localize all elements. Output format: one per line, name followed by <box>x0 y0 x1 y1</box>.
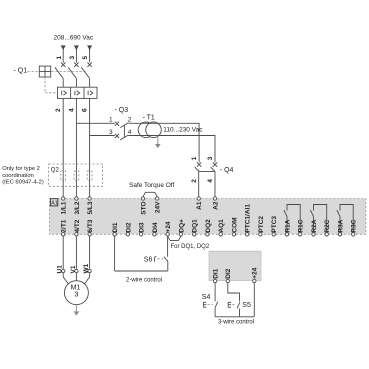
svg-text:6/T3: 6/T3 <box>87 219 94 232</box>
terminal A1 <box>197 197 200 200</box>
breaker pole 1 fixed contact X <box>61 63 65 67</box>
dashed link Q1 box to trip units <box>45 77 57 93</box>
svg-text:3: 3 <box>109 129 113 136</box>
svg-text:3: 3 <box>207 156 214 160</box>
supply arrow L1 <box>61 45 66 50</box>
svg-text:2/T1: 2/T1 <box>61 219 68 232</box>
svg-text:3: 3 <box>69 56 76 60</box>
svg-text:2: 2 <box>55 108 62 112</box>
svg-text:R1A: R1A <box>284 219 291 232</box>
terminal AQ1 <box>219 233 222 236</box>
fuse Q2 pole 2 (dashed) <box>74 171 79 181</box>
wire pole3 blade to trip unit <box>89 78 91 87</box>
terminal 1/L1 <box>62 197 65 200</box>
switch S6 blade <box>164 257 168 262</box>
svg-text:4: 4 <box>207 179 214 183</box>
svg-text:1: 1 <box>109 117 113 124</box>
svg-text:A1: A1 <box>196 201 203 210</box>
3-wire control terminal block (gray) <box>209 251 261 280</box>
terminal DQ2 <box>206 233 209 236</box>
wire +24 down <box>253 283 255 317</box>
svg-text:4/T2: 4/T2 <box>74 219 81 232</box>
optional fuse group Q2 (dashed box) <box>49 164 103 186</box>
terminal 6/T3 <box>88 233 91 236</box>
svg-text:3-wire control: 3-wire control <box>218 319 254 325</box>
wire 4/T2 to V1 <box>75 236 77 269</box>
svg-text:R2C: R2C <box>324 219 331 232</box>
fuse Q2 pole 3 (dashed) <box>87 171 92 181</box>
terminal 5/L3 <box>88 197 91 200</box>
svg-text:- Q4: - Q4 <box>220 167 234 174</box>
relay contact R1 <box>284 205 300 235</box>
block terminal +24 <box>253 279 256 282</box>
svg-text:3/L2: 3/L2 <box>74 201 81 214</box>
contactor Q4 pole 2 blade <box>211 167 215 171</box>
S5 actuator dashes <box>232 304 236 306</box>
svg-text:W1: W1 <box>83 263 90 273</box>
relay contact R3 <box>337 205 353 235</box>
circuit breaker Q1 operating mechanism box <box>39 66 50 77</box>
terminal STO <box>141 197 144 200</box>
breaker pole 2 blade <box>68 67 76 78</box>
svg-text:DI1: DI1 <box>112 222 119 233</box>
svg-text:For DQ1, DQ2: For DQ1, DQ2 <box>171 244 210 250</box>
svg-text:DI1: DI1 <box>213 268 220 279</box>
relay contact R2 <box>310 205 326 235</box>
motor terminal V1 <box>75 269 78 272</box>
Q3 pole 2 fixed contact X <box>115 134 119 138</box>
svg-text:DI2: DI2 <box>225 268 232 279</box>
breaker pole 1 blade <box>55 67 63 78</box>
transformer T1 <box>138 122 161 138</box>
svg-text:5/L3: 5/L3 <box>87 201 94 214</box>
svg-text:1: 1 <box>56 56 63 60</box>
svg-text:110...230 Vac: 110...230 Vac <box>163 126 203 133</box>
svg-text:A2: A2 <box>212 201 219 210</box>
wire L1 to breaker <box>62 49 64 63</box>
svg-text:5: 5 <box>82 56 89 60</box>
supply arrow L2 <box>74 45 79 50</box>
svg-text:4: 4 <box>128 129 132 136</box>
terminal PTC3 <box>272 233 275 236</box>
svg-text:- Q1: - Q1 <box>14 68 28 75</box>
svg-text:3: 3 <box>75 291 79 298</box>
terminal A2 <box>213 197 216 200</box>
terminal R3C <box>352 233 355 236</box>
svg-text:DQ2: DQ2 <box>205 219 212 233</box>
wire Q3 pole2 to Q4 pole2 (through T1) <box>128 136 215 163</box>
svg-text:Q2: Q2 <box>51 167 60 173</box>
svg-text:2: 2 <box>191 179 198 183</box>
svg-text:2-wire control: 2-wire control <box>126 277 162 283</box>
motor M1 <box>64 281 88 305</box>
wire L3 to breaker <box>89 49 91 63</box>
contactor Q4 pole 2 fixed contact X <box>213 162 217 166</box>
terminal R3A <box>338 233 341 236</box>
S4 actuator (push button) <box>203 302 206 307</box>
terminal 3/L2 <box>75 197 78 200</box>
wire Q4 pole2 to A2 <box>214 172 216 197</box>
terminal R2C <box>325 233 328 236</box>
terminal DI4 <box>153 233 156 236</box>
breaker pole 3 blade <box>81 67 89 78</box>
terminal R2A <box>312 233 315 236</box>
push button S4 blade <box>215 302 218 308</box>
svg-text:- Q3: - Q3 <box>115 107 129 114</box>
push button S5 blade <box>237 302 240 308</box>
wire L2 trip unit to starter terminal 3/L2 <box>75 98 77 196</box>
svg-text:1: 1 <box>191 156 198 160</box>
svg-text:- T1: - T1 <box>143 115 155 122</box>
svg-text:DQ1: DQ1 <box>192 219 199 233</box>
T1 secondary earth arrow <box>155 136 161 149</box>
Q3 pole 2 blade <box>120 135 128 140</box>
wire pole2 blade to trip unit <box>75 78 77 87</box>
breaker pole 2 fixed contact X <box>74 63 78 67</box>
terminal DI1 <box>113 233 116 236</box>
svg-text:COM: COM <box>231 217 238 232</box>
Q3 pole 1 fixed contact X <box>115 122 119 126</box>
terminal COM <box>232 233 235 236</box>
2-wire control: wire +24 down to S6 <box>167 236 169 256</box>
note: only for type 2 coordination <box>2 166 44 186</box>
terminal R1C <box>299 233 302 236</box>
wire W1 to motor <box>83 273 89 286</box>
motor shaft arrow <box>74 305 80 316</box>
Q1 overcurrent trip units I> <box>58 87 98 98</box>
svg-text:Safe Torque Off: Safe Torque Off <box>129 182 174 189</box>
svg-text:DI4: DI4 <box>152 222 159 233</box>
terminal DQ+ <box>179 233 182 236</box>
svg-text:R3A: R3A <box>337 219 344 232</box>
terminal 4/T2 <box>75 233 78 236</box>
svg-text:2: 2 <box>128 117 132 124</box>
wire 2/T1 to U1 <box>62 236 64 269</box>
soft starter A1 (main gray terminal band) <box>49 199 365 235</box>
S4 lower wire <box>214 308 216 317</box>
wire Q3 pole1 to Q4 pole1 (through T1) <box>128 123 199 162</box>
motor terminal W1 <box>88 269 91 272</box>
terminal R1A <box>285 233 288 236</box>
supply arrow L3 <box>87 45 92 50</box>
wire tap L2 to Q3 pole 1 <box>76 122 114 124</box>
wire pole1 blade to trip unit <box>62 78 64 87</box>
terminal PTC1/AI1 <box>246 233 249 236</box>
svg-text:4: 4 <box>68 108 75 112</box>
wire U1 to motor <box>63 273 69 286</box>
2-wire control: wire DI1 down <box>114 236 116 271</box>
svg-text:PTC3: PTC3 <box>271 216 278 233</box>
svg-text:S6: S6 <box>144 256 153 263</box>
svg-text:208...690 Vac: 208...690 Vac <box>54 35 94 42</box>
wire DI1 to S4 <box>214 283 216 301</box>
svg-text:R3C: R3C <box>351 219 358 232</box>
wire Q4 pole1 to A1 <box>198 172 200 197</box>
terminal DI2 <box>126 233 129 236</box>
terminal +24 <box>166 233 169 236</box>
jumper +24 to DQ+ <box>168 236 181 240</box>
Q3 pole 1 blade <box>120 123 128 128</box>
svg-text:R2A: R2A <box>311 219 318 232</box>
block terminal DI1 <box>213 279 216 282</box>
svg-text:1/L1: 1/L1 <box>61 201 68 214</box>
breaker pole 3 fixed contact X <box>87 63 91 67</box>
S4 actuator dashes <box>208 304 214 306</box>
svg-text:STO: STO <box>140 202 147 215</box>
2-wire control: bottom wire <box>115 270 168 272</box>
svg-text:Only for type 2: Only for type 2 <box>2 166 40 172</box>
svg-text:M1: M1 <box>71 284 81 291</box>
wire 6/T3 to W1 <box>89 236 91 269</box>
svg-text:S5: S5 <box>242 302 251 309</box>
svg-text:6: 6 <box>82 108 89 112</box>
svg-text:S4: S4 <box>202 294 211 301</box>
svg-text:AQ1: AQ1 <box>218 219 225 233</box>
svg-text:PTC2: PTC2 <box>258 216 265 233</box>
terminal DI3 <box>139 233 142 236</box>
STO jumper STO-24V <box>143 192 157 197</box>
svg-text:+24: +24 <box>252 267 259 278</box>
block terminal DI2 <box>226 279 229 282</box>
switch S6 actuator hook <box>155 257 157 262</box>
fuse Q2 pole 1 (dashed) <box>61 171 66 181</box>
svg-text:DI3: DI3 <box>139 222 146 233</box>
terminal 2/T1 <box>62 233 65 236</box>
svg-text:24V: 24V <box>155 201 162 213</box>
wire V1 to motor <box>75 273 77 281</box>
motor terminal U1 <box>62 269 65 272</box>
svg-text:+24: +24 <box>165 221 172 232</box>
terminal PTC2 <box>259 233 262 236</box>
wire L3 trip unit to starter terminal 5/L3 <box>89 98 91 196</box>
contactor Q4 pole 1 fixed contact X <box>197 162 201 166</box>
svg-text:A1: A1 <box>51 200 57 206</box>
terminal DQ1 <box>193 233 196 236</box>
device label A1 box <box>50 199 57 207</box>
Q3 mechanical coupling <box>123 125 125 137</box>
svg-text:U1: U1 <box>57 265 64 274</box>
circuit breaker Q1 mechanical linkage (dashed) <box>28 71 87 73</box>
svg-text:(IEC 60947-4-2): (IEC 60947-4-2) <box>2 180 44 186</box>
terminal 24V <box>156 197 159 200</box>
switch S6 lower wire <box>167 261 169 271</box>
Q4 mechanical coupling <box>199 171 215 173</box>
S5 actuator (push button) <box>228 302 231 307</box>
wire tap L3 to Q3 pole 2 <box>90 135 115 137</box>
switch S6 actuator dashes <box>158 258 164 260</box>
svg-text:V1: V1 <box>70 265 77 273</box>
wire DI2 step to S5 <box>228 283 240 301</box>
svg-text:coordination: coordination <box>2 173 34 179</box>
svg-text:PTC1/AI1: PTC1/AI1 <box>245 204 252 233</box>
wire L1 trip unit to starter terminal 1/L1 <box>62 98 64 196</box>
3-wire bottom bus <box>215 316 254 318</box>
S5 lower wire <box>239 309 241 317</box>
svg-text:R1C: R1C <box>298 219 305 232</box>
svg-text:DI2: DI2 <box>125 222 132 233</box>
contactor Q4 pole 1 blade <box>195 167 199 171</box>
wire L2 to breaker <box>75 49 77 63</box>
svg-text:DQ+: DQ+ <box>178 219 185 233</box>
